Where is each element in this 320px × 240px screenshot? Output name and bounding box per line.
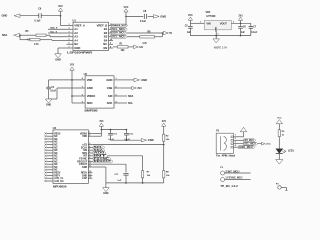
U2 SDO wire xyxy=(72,102,85,104)
svg-text:GND: GND xyxy=(74,46,80,50)
svg-text:GND: GND xyxy=(87,86,93,90)
svg-text:11: 11 xyxy=(89,166,91,168)
wire LED to gnd xyxy=(278,154,280,160)
led LED1 xyxy=(276,149,283,154)
R8 feed vertical xyxy=(163,145,165,171)
svg-text:HT7330: HT7330 xyxy=(207,15,217,18)
svg-text:VDDIO: VDDIO xyxy=(80,133,87,135)
svg-text:VCC: VCC xyxy=(124,7,129,9)
svg-text:SDI: SDI xyxy=(108,94,113,98)
svg-text:2: 2 xyxy=(233,21,234,23)
svg-text:SDI: SDI xyxy=(83,150,87,152)
gnd arrow caps xyxy=(141,139,146,142)
net label A2 wire xyxy=(48,32,67,34)
P1 pin4 port xyxy=(239,146,255,149)
svg-text:EN: EN xyxy=(103,46,107,50)
svg-text:0.1uF: 0.1uF xyxy=(140,21,147,23)
svg-text:GND: GND xyxy=(82,167,87,169)
svg-text:VDD: VDD xyxy=(82,136,87,138)
P1 pin 1 pad xyxy=(231,136,233,138)
svg-text:3: 3 xyxy=(235,142,236,144)
svg-text:NC: NC xyxy=(54,158,58,160)
svg-text:GND: GND xyxy=(141,78,147,82)
svg-text:VIN: VIN xyxy=(206,23,210,26)
svg-text:8: 8 xyxy=(89,157,90,159)
svg-text:MPU6050: MPU6050 xyxy=(53,184,67,188)
capacitor C7 xyxy=(250,23,252,26)
port REGOUT U3 xyxy=(91,160,94,162)
VR1 output wire xyxy=(231,22,251,24)
net arrow right 5V xyxy=(163,31,168,34)
svg-text:VREF_A: VREF_A xyxy=(74,23,85,27)
wire VREF_B to VCC right xyxy=(113,25,126,27)
svg-text:4: 4 xyxy=(89,145,90,148)
ic U3 imu box xyxy=(53,130,88,184)
svg-text:13: 13 xyxy=(89,174,91,176)
svg-text:VDDIO: VDDIO xyxy=(87,94,96,98)
svg-text:12: 12 xyxy=(89,171,91,173)
wire GND rail left xyxy=(20,15,39,17)
svg-text:2: 2 xyxy=(89,135,90,137)
svg-text:6: 6 xyxy=(89,152,90,154)
svg-text:GND: GND xyxy=(2,14,8,18)
svg-text:NC: NC xyxy=(54,147,58,149)
svg-text:INT_MCU: INT_MCU xyxy=(244,140,254,142)
resistor R2 pullup xyxy=(163,134,165,141)
port B1 net xyxy=(113,28,115,30)
svg-text:A4: A4 xyxy=(74,38,78,42)
svg-text:3: 3 xyxy=(89,143,90,145)
resistor R4 xyxy=(52,40,67,42)
capacitor C17 xyxy=(123,173,128,175)
svg-text:VCC: VCC xyxy=(188,15,193,17)
power VCC regulator input xyxy=(189,20,191,23)
svg-text:VOUT: VOUT xyxy=(220,23,227,26)
capacitor C8 rail xyxy=(126,15,143,17)
svg-text:VREF_B: VREF_B xyxy=(97,23,108,27)
svg-text:GND: GND xyxy=(160,14,166,18)
capacitor C4 xyxy=(48,80,50,87)
svg-text:1: 1 xyxy=(116,78,117,80)
svg-text:NC: NC xyxy=(54,153,58,155)
power VCC top-left xyxy=(60,11,62,16)
P1 pin2 port xyxy=(239,139,244,141)
svg-text:NC: NC xyxy=(74,42,78,46)
U3 supply top wire xyxy=(101,129,126,131)
wire R9 to LED xyxy=(278,137,280,149)
svg-text:CAP: CAP xyxy=(82,177,87,180)
svg-text:7: 7 xyxy=(69,46,70,48)
svg-text:NC: NC xyxy=(54,161,58,163)
svg-text:EN: EN xyxy=(140,47,144,49)
svg-text:2 INT_MCU: 2 INT_MCU xyxy=(225,171,239,173)
svg-text:NC: NC xyxy=(103,42,107,46)
U3 VDD stub xyxy=(92,135,101,137)
svg-text:0.1uF: 0.1uF xyxy=(35,21,42,23)
svg-text:RESV: RESV xyxy=(81,172,88,174)
svg-text:GND: GND xyxy=(46,105,51,107)
testpoint TP2 circle xyxy=(221,178,225,182)
ground U2 cap xyxy=(45,99,52,103)
svg-text:RESV: RESV xyxy=(54,172,61,174)
svg-text:NC: NC xyxy=(54,170,58,172)
svg-text:0.1uF: 0.1uF xyxy=(251,32,258,34)
port B2 net wire xyxy=(113,32,162,34)
svg-text:RESV: RESV xyxy=(54,133,61,135)
ground U3 xyxy=(103,188,110,192)
ground LED xyxy=(276,160,283,165)
svg-text:SCL: SCL xyxy=(128,102,133,105)
svg-text:CSB: CSB xyxy=(107,86,113,90)
svg-text:14: 14 xyxy=(89,176,91,179)
resistor R6 xyxy=(140,36,155,39)
svg-text:NC: NC xyxy=(54,156,58,158)
ground U1 xyxy=(55,54,62,58)
svg-text:SCK: SCK xyxy=(107,101,113,105)
svg-text:4.7k: 4.7k xyxy=(142,42,147,45)
port INT U3 and wire to R7 xyxy=(92,155,142,157)
mount hole wire xyxy=(281,186,286,188)
svg-text:3: 3 xyxy=(217,33,218,35)
svg-text:7: 7 xyxy=(89,154,90,156)
gnd arrow left xyxy=(14,14,20,18)
svg-text:nCS: nCS xyxy=(82,144,87,146)
svg-text:SDA_MCU: SDA_MCU xyxy=(112,32,126,35)
svg-text:1: 1 xyxy=(69,24,70,26)
resistor R8 xyxy=(163,171,165,178)
U2 SDI net label xyxy=(121,95,127,97)
resistor R7 xyxy=(141,171,143,178)
svg-text:TP_B4_1.0.2: TP_B4_1.0.2 xyxy=(220,185,238,188)
gnd rail caps xyxy=(111,139,142,141)
net label A1 wire xyxy=(48,28,67,30)
port SDI U3 xyxy=(91,149,94,151)
U2 SCK net label xyxy=(121,102,127,104)
gnd arrow right of C8 xyxy=(154,15,160,19)
svg-text:NC: NC xyxy=(54,139,58,141)
svg-text:SDO: SDO xyxy=(87,101,93,105)
svg-text:1uF: 1uF xyxy=(187,32,192,34)
power 3V3 output arrow xyxy=(240,23,242,25)
svg-text:5: 5 xyxy=(69,39,70,41)
svg-text:B3: B3 xyxy=(104,35,108,39)
svg-text:VR1: VR1 xyxy=(206,11,211,14)
svg-text:9: 9 xyxy=(110,43,111,45)
svg-text:REGOUT: REGOUT xyxy=(94,161,112,163)
svg-text:2: 2 xyxy=(116,86,117,88)
svg-text:NBRE 3.0V: NBRE 3.0V xyxy=(214,45,228,49)
resistor R9 xyxy=(278,130,280,137)
svg-text:3: 3 xyxy=(116,94,117,96)
P1 pin 4 pad xyxy=(231,146,233,148)
svg-text:1 FSYNC_MCU: 1 FSYNC_MCU xyxy=(225,178,242,180)
svg-text:GND: GND xyxy=(103,193,108,195)
svg-text:SCL_MCU: SCL_MCU xyxy=(112,29,126,31)
svg-text:4: 4 xyxy=(235,144,236,147)
capacitor C9 xyxy=(38,13,40,18)
svg-text:U2: U2 xyxy=(84,72,88,76)
svg-text:NC: NC xyxy=(54,144,58,146)
U1 gnd pin wire xyxy=(58,47,67,49)
power 3V3 U3 xyxy=(100,126,102,129)
svg-text:B1: B1 xyxy=(104,27,108,31)
svg-text:1: 1 xyxy=(200,21,201,23)
svg-text:GND: GND xyxy=(82,175,87,177)
svg-text:5V: 5V xyxy=(169,33,172,35)
ground regulator xyxy=(213,39,220,43)
gnd rail regulator xyxy=(190,35,250,37)
svg-text:SCL_S: SCL_S xyxy=(50,31,57,33)
svg-text:REGOUT: REGOUT xyxy=(77,161,87,163)
svg-text:0.1uF: 0.1uF xyxy=(50,91,57,93)
U2 VDD wire xyxy=(49,79,86,81)
capacitor C13 xyxy=(110,130,112,133)
svg-text:ENABLE_MCU: ENABLE_MCU xyxy=(112,24,126,27)
U3 CPOUT wire to C17 xyxy=(92,163,126,165)
svg-text:CPOUT: CPOUT xyxy=(79,164,88,166)
mount hole circle xyxy=(278,186,281,189)
svg-text:INT: INT xyxy=(83,156,87,158)
P1 pin 3 pad xyxy=(231,143,233,145)
svg-text:3V3: 3V3 xyxy=(137,88,142,90)
testpoint TP1 circle xyxy=(221,171,225,175)
svg-text:A1: A1 xyxy=(74,27,78,31)
svg-text:NC: NC xyxy=(54,164,58,166)
gnd drop U3 xyxy=(105,183,107,188)
net arrow left SDA xyxy=(14,33,20,37)
svg-text:SCL_MCU: SCL_MCU xyxy=(112,36,126,38)
svg-text:A3: A3 xyxy=(74,35,78,39)
net arrow EN_B xyxy=(134,45,139,48)
svg-text:GND: GND xyxy=(106,78,112,82)
svg-text:NC: NC xyxy=(54,142,58,144)
U2 CSB arrow xyxy=(121,87,132,89)
svg-text:LSF0204PWR: LSF0204PWR xyxy=(67,51,92,55)
svg-text:NC: NC xyxy=(54,150,58,152)
svg-text:+VCC: +VCC xyxy=(265,144,271,146)
U2 VDDIO wire xyxy=(72,95,85,97)
svg-text:SDO: SDO xyxy=(82,153,87,155)
3V3 bus vertical xyxy=(71,70,73,103)
svg-text:1: 1 xyxy=(235,135,236,137)
svg-text:10: 10 xyxy=(89,163,91,165)
svg-text:BMP280: BMP280 xyxy=(85,108,98,112)
U3 GND pin wire xyxy=(92,166,106,168)
gnd rail U3 xyxy=(106,182,164,184)
wire to R9 xyxy=(278,124,280,130)
port SCLK U3 xyxy=(91,146,94,148)
svg-text:SCLK: SCLK xyxy=(81,147,88,149)
svg-text:For_4PIN_Head: For_4PIN_Head xyxy=(216,154,235,158)
svg-text:U3: U3 xyxy=(53,126,57,130)
svg-text:8: 8 xyxy=(110,46,111,48)
svg-text:AUX_CL: AUX_CL xyxy=(54,177,64,180)
svg-text:VCC: VCC xyxy=(277,118,282,120)
svg-text:1: 1 xyxy=(89,132,90,134)
capacitor C6 xyxy=(240,23,242,26)
svg-text:GND: GND xyxy=(148,138,154,142)
P1 pin3 wire VCC xyxy=(239,143,262,145)
svg-text:A2: A2 xyxy=(74,31,78,35)
U2 GND pin path xyxy=(57,87,85,89)
svg-text:GND: GND xyxy=(55,58,61,61)
ic U2 sensor box xyxy=(85,76,114,108)
capacitor C5 input xyxy=(189,23,191,26)
svg-text:NC: NC xyxy=(54,136,58,138)
svg-text:1uF: 1uF xyxy=(241,32,246,34)
svg-text:2: 2 xyxy=(69,28,70,30)
svg-text:GND_MCU: GND_MCU xyxy=(239,147,253,149)
svg-text:AUX_DA: AUX_DA xyxy=(54,180,64,183)
P1 pin1 wire to arrow up xyxy=(239,136,244,138)
svg-text:SDA: SDA xyxy=(128,95,133,98)
U3 VDDIO stub xyxy=(92,132,101,134)
wire VREF_A to VCC xyxy=(61,25,67,27)
svg-text:VDD: VDD xyxy=(87,78,93,82)
VR1 gnd pin drop xyxy=(215,30,217,39)
port B3 net wire xyxy=(113,36,140,38)
svg-text:B2: B2 xyxy=(104,31,108,35)
svg-text:SDA: SDA xyxy=(2,34,7,37)
svg-text:U1: U1 xyxy=(73,18,77,22)
connector inner drawing xyxy=(219,136,221,150)
capacitor C14 xyxy=(125,130,127,133)
connector P1 body xyxy=(216,133,233,153)
U2 GND right arrow xyxy=(121,79,134,81)
resistor R1 row xyxy=(113,46,118,48)
svg-text:LED1: LED1 xyxy=(288,151,295,153)
svg-text:SDA_S: SDA_S xyxy=(50,27,58,30)
port FSYNC U3 xyxy=(91,158,94,160)
svg-text:5: 5 xyxy=(89,149,90,151)
port SDO U3 xyxy=(91,152,94,154)
regulator VR1 body xyxy=(204,20,231,30)
power VCC right xyxy=(125,12,127,16)
VR1 input wire xyxy=(190,22,204,24)
svg-text:4.7k: 4.7k xyxy=(34,43,39,46)
svg-text:VCC: VCC xyxy=(58,6,63,8)
svg-text:2: 2 xyxy=(235,138,236,140)
svg-text:SCL_MCU: SCL_MCU xyxy=(244,143,256,145)
U3 nCS wire to 3V3 and R8 xyxy=(92,144,163,146)
svg-text:10: 10 xyxy=(110,39,112,41)
resistor R5 xyxy=(50,36,67,38)
svg-text:6: 6 xyxy=(69,43,70,45)
svg-text:3: 3 xyxy=(69,31,70,33)
svg-text:FSYNC: FSYNC xyxy=(79,158,87,160)
svg-text:NC: NC xyxy=(54,167,58,169)
svg-text:B4: B4 xyxy=(104,38,108,42)
P1 pin 2 pad xyxy=(231,140,233,142)
svg-text:REFY: REFY xyxy=(54,175,61,177)
svg-text:9: 9 xyxy=(89,160,90,162)
ic U1 level shifter box xyxy=(73,22,109,50)
